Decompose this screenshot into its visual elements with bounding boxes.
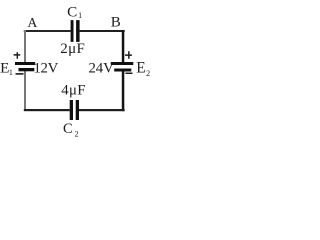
wire left rail lower segment (E1 down to bottom rail) <box>24 71 26 111</box>
svg-text:C: C <box>67 3 77 20</box>
svg-text:12V: 12V <box>34 61 59 77</box>
battery E2 negative plate (bottom, short thick) <box>114 69 131 72</box>
wire right rail upper segment (B down to E2) <box>122 30 125 63</box>
battery E1 minus sign <box>16 73 24 75</box>
svg-text:4μF: 4μF <box>61 83 85 99</box>
svg-text:1: 1 <box>9 68 13 77</box>
capacitor C1 right plate <box>76 20 80 42</box>
battery E2 minus sign <box>125 73 132 75</box>
wire bottom rail left segment <box>24 109 70 111</box>
battery E1 plus sign <box>14 52 21 59</box>
wire top rail right segment (node B side) <box>80 30 125 32</box>
capacitor C1 left plate <box>71 20 74 42</box>
svg-text:C: C <box>63 121 73 137</box>
svg-text:2: 2 <box>146 69 150 78</box>
svg-text:24V: 24V <box>89 61 115 77</box>
svg-text:2: 2 <box>75 130 79 139</box>
battery E1 negative plate (bottom, short thick) <box>19 68 35 71</box>
svg-text:2μF: 2μF <box>60 41 85 57</box>
svg-text:B: B <box>111 15 121 31</box>
svg-text:A: A <box>27 15 37 30</box>
wire left rail upper segment (A down to E1) <box>24 30 26 63</box>
wire right rail lower segment (E2 down to bottom rail) <box>122 71 125 111</box>
svg-text:1: 1 <box>78 11 82 20</box>
wire bottom rail right segment <box>79 109 125 111</box>
battery E1 positive plate (top, long) <box>15 62 35 65</box>
battery E2 plus sign <box>125 51 132 59</box>
capacitor C2 right plate <box>76 100 79 120</box>
battery E2 positive plate (top, long) <box>111 62 134 65</box>
wire top rail left segment (node A side) <box>24 30 71 32</box>
capacitor C2 left plate <box>70 100 73 120</box>
svg-text:E: E <box>136 59 145 76</box>
